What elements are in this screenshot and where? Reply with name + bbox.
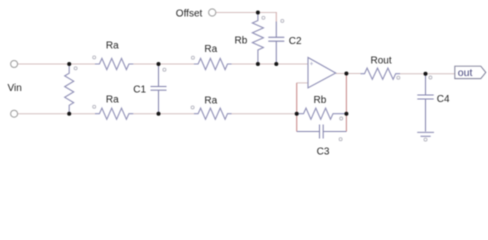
wire op-amp output to Rout [336, 73, 361, 75]
svg-text:Ra: Ra [204, 95, 217, 106]
resistor Rb2 feedback [297, 108, 347, 119]
wire Offset horizontal to C2 corner [216, 12, 276, 14]
terminal Vin- [11, 110, 18, 117]
svg-text:Rout: Rout [371, 56, 392, 67]
wire op-amp inverting input horizontal [297, 82, 308, 84]
pin marker Ra1 left [93, 56, 96, 59]
op-amp U1 [308, 58, 336, 88]
svg-text:C4: C4 [437, 94, 450, 105]
svg-text:Vin: Vin [8, 83, 22, 94]
capacitor C2 vertical offset network [268, 22, 284, 65]
svg-text:Rb: Rb [235, 35, 248, 46]
wire bottom rail Ra3 to Ra4 [133, 113, 194, 115]
resistor Ra4 bottom-right [194, 108, 232, 119]
wire top rail Ra1 to Ra2 [133, 63, 194, 65]
junction dot output node [344, 72, 348, 76]
node out flag [455, 66, 486, 79]
pin marker C2 top [281, 19, 284, 22]
capacitor C4 output [417, 74, 433, 132]
pin marker Rb1 top [262, 16, 265, 19]
svg-text:C3: C3 [317, 146, 330, 157]
pin marker Rb2 right [340, 117, 343, 120]
terminal Offset [209, 9, 216, 16]
svg-text:Ra: Ra [106, 40, 119, 51]
svg-text:C1: C1 [133, 84, 146, 95]
pin marker C4 top [429, 76, 432, 79]
pin marker R1 top [74, 67, 77, 70]
pin marker Rout right [397, 76, 400, 79]
wire Rout to C4 node to out flag [400, 73, 455, 75]
junction dot node A inverting input [295, 112, 299, 116]
resistor Ra2 top-right [194, 58, 232, 69]
wire top rail from Vin+ terminal to R1 top and Ra1 [18, 63, 95, 65]
capacitor C3 feedback horizontal [297, 125, 347, 139]
resistor Rout [361, 68, 401, 79]
wire bottom rail Ra4 to node A [232, 113, 297, 115]
pin marker C1 top [163, 68, 166, 71]
pin marker ground [424, 138, 427, 141]
svg-text:C2: C2 [289, 36, 302, 47]
wire bottom rail from Vin- terminal to Ra3 [18, 113, 95, 115]
pin marker Ra3 left [93, 105, 96, 108]
resistor Ra1 top-left [95, 58, 133, 69]
svg-text:Offset: Offset [176, 9, 203, 20]
junction dot offset wire / Rb1 top [256, 11, 260, 15]
capacitor C1 vertical between rails [151, 64, 167, 114]
junction dot top rail / Rb1 bottom [256, 62, 260, 66]
svg-text:Rb: Rb [314, 95, 327, 106]
resistor Ra3 bottom-left [95, 108, 133, 119]
wire red vertical output node down to C3 right [345, 74, 347, 132]
junction dot bottom rail / C1 bottom [157, 112, 161, 116]
junction dot top rail / C2 bottom [274, 62, 278, 66]
terminal Vin+ [11, 61, 18, 68]
svg-text:Ra: Ra [204, 44, 217, 55]
resistor R1 vertical between rails [65, 64, 74, 114]
junction dot bottom rail / R1 bottom [67, 112, 71, 116]
wire red vertical node A to inverting input and down to C3 [296, 83, 298, 132]
junction dot top rail / R1 top [67, 62, 71, 66]
pin marker Ra2 left [191, 56, 194, 59]
pin marker C3 right [339, 138, 342, 141]
junction dot top rail / C1 top [157, 62, 161, 66]
svg-text:Ra: Ra [106, 95, 119, 106]
ground at C4 bottom [417, 132, 434, 136]
junction dot Rb2 right node [344, 112, 348, 116]
svg-text:out: out [458, 67, 473, 79]
resistor Rb1 vertical offset network [252, 13, 263, 65]
wire top rail Ra2 to op-amp + input [232, 63, 308, 65]
pin marker Ra4 left [191, 106, 194, 109]
junction dot output rail / C4 top [424, 72, 428, 76]
